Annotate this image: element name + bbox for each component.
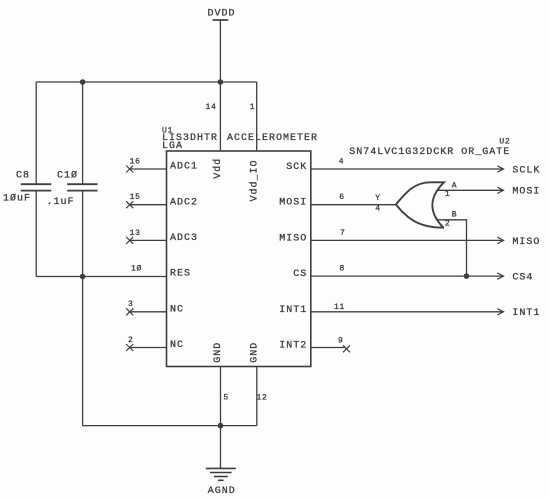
junction CS/B (464, 273, 470, 279)
no-connect X ADC2 (126, 201, 133, 208)
svg-text:4: 4 (375, 204, 381, 213)
svg-text:6: 6 (339, 193, 345, 202)
svg-text:MOSI: MOSI (279, 198, 307, 209)
svg-text:C8: C8 (16, 171, 30, 182)
svg-text:MISO: MISO (512, 237, 540, 248)
junction at ground stem (218, 423, 224, 429)
pin NC2 stub (130, 347, 167, 349)
svg-text:GND: GND (250, 342, 261, 363)
svg-text:7: 7 (340, 229, 346, 238)
wire ground stem (220, 426, 222, 469)
svg-text:Vdd_IO: Vdd_IO (248, 159, 260, 201)
svg-text:A: A (452, 181, 458, 190)
wire GND pin12 lead (256, 367, 258, 426)
wire MOSI to gate output (311, 204, 396, 206)
svg-text:SCK: SCK (286, 162, 307, 173)
svg-text:SN74LVC1G32DCKR OR_GATE: SN74LVC1G32DCKR OR_GATE (349, 147, 510, 158)
wire gate input B down to CS (438, 220, 467, 276)
no-connect X ADC3 (126, 237, 133, 244)
svg-text:2: 2 (445, 219, 451, 228)
wire bottom horizontal to ground (83, 425, 257, 427)
pin ADC3 stub (130, 239, 167, 241)
no-connect X NC3 (126, 308, 133, 315)
pin NC3 stub (130, 311, 167, 313)
svg-text:RES: RES (170, 269, 191, 280)
svg-text:CS4: CS4 (512, 273, 533, 284)
svg-text:4: 4 (339, 157, 345, 166)
wire GND pin5 lead (220, 367, 222, 426)
svg-text:DVDD: DVDD (208, 9, 236, 20)
junction at C10 top (80, 79, 86, 85)
svg-text:LGA: LGA (162, 141, 183, 152)
svg-text:CS: CS (293, 269, 307, 280)
svg-text:GND: GND (213, 342, 224, 363)
capacitor C8 (21, 82, 51, 277)
arrowhead MISO (497, 237, 503, 243)
op-amp U1 IC box (167, 151, 311, 367)
wire left vertical to ground (82, 277, 84, 426)
svg-text:9: 9 (338, 336, 344, 345)
wire CS to CS4 arrow (311, 275, 503, 277)
arrowhead INT1 (497, 309, 503, 315)
no-connect X NC2 (126, 344, 133, 351)
wire MISO to arrow (311, 239, 503, 241)
svg-text:Y: Y (375, 194, 381, 203)
svg-text:ACCELEROMETER: ACCELEROMETER (227, 133, 318, 144)
wire top horizontal bus (36, 81, 257, 83)
svg-text:INT1: INT1 (279, 305, 307, 316)
svg-text:ADC1: ADC1 (170, 162, 198, 173)
svg-text:MISO: MISO (279, 233, 307, 244)
svg-text:.1uF: .1uF (47, 197, 75, 208)
no-connect X ADC1 (126, 166, 133, 173)
pin ADC1 stub (130, 168, 167, 170)
wire INT1 to arrow (311, 311, 503, 313)
arrowhead CS4 (497, 273, 503, 279)
svg-text:1: 1 (250, 103, 256, 112)
pin INT2 stub (311, 347, 345, 349)
junction RES net (80, 274, 86, 280)
svg-text:12: 12 (257, 394, 268, 403)
svg-text:1Ø: 1Ø (131, 264, 142, 273)
svg-text:ADC3: ADC3 (170, 233, 198, 244)
capacitor C10 (67, 82, 97, 277)
svg-text:11: 11 (334, 303, 345, 312)
no-connect X INT2 (343, 345, 350, 352)
svg-text:8: 8 (340, 264, 346, 273)
arrowhead SCLK (497, 166, 503, 172)
arrowhead MOSI (497, 187, 503, 193)
svg-text:B: B (452, 211, 458, 220)
svg-text:1ØuF: 1ØuF (3, 193, 31, 205)
wire pin14 lead (219, 82, 221, 151)
svg-text:1: 1 (445, 190, 451, 199)
svg-text:ADC2: ADC2 (170, 197, 198, 208)
svg-text:MOSI: MOSI (512, 187, 540, 198)
ground symbol AGND (206, 468, 236, 480)
svg-text:U2: U2 (499, 138, 510, 147)
svg-text:5: 5 (223, 394, 229, 403)
svg-text:Vdd: Vdd (212, 158, 224, 179)
pin ADC2 stub (130, 204, 167, 206)
junction at DVDD pin14 (218, 79, 224, 85)
wire SCK to SCLK (311, 168, 503, 170)
power symbol DVDD (213, 20, 229, 82)
svg-text:15: 15 (130, 193, 141, 202)
wire RES net horizontal (36, 276, 166, 278)
or-gate U2 (396, 182, 444, 227)
svg-text:INT2: INT2 (279, 341, 307, 352)
svg-text:AGND: AGND (208, 486, 236, 497)
svg-text:C1Ø: C1Ø (57, 170, 78, 182)
svg-text:NC: NC (170, 304, 184, 315)
svg-text:14: 14 (206, 103, 217, 112)
svg-text:NC: NC (170, 340, 184, 351)
svg-text:16: 16 (130, 157, 141, 166)
wire pin1 lead (256, 82, 258, 151)
svg-text:2: 2 (128, 336, 134, 345)
svg-text:3: 3 (128, 300, 134, 309)
wire gate input A to MOSI arrow (438, 189, 504, 191)
svg-text:13: 13 (130, 229, 141, 238)
svg-text:SCLK: SCLK (512, 165, 540, 176)
svg-text:INT1: INT1 (512, 308, 540, 319)
